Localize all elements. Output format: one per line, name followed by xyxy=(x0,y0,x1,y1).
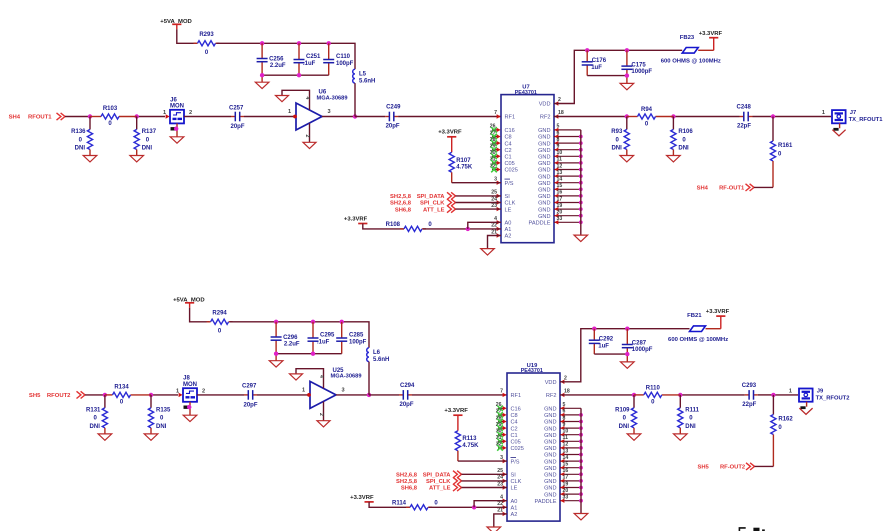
capacitor C295 .1uF xyxy=(308,322,336,354)
svg-text:R108: R108 xyxy=(386,222,401,228)
junction xyxy=(187,405,191,409)
svg-text:GND: GND xyxy=(544,446,556,452)
svg-text:SPI_DATA: SPI_DATA xyxy=(423,473,452,479)
pin GND (19) xyxy=(544,481,581,491)
svg-text:17: 17 xyxy=(557,196,563,202)
capacitor C256 2.2uF xyxy=(257,43,286,75)
junction xyxy=(632,393,636,397)
junction xyxy=(579,187,583,191)
wire xyxy=(462,480,508,482)
svg-text:C296: C296 xyxy=(283,335,298,341)
junction xyxy=(466,227,470,231)
wire amp pin4 to ground xyxy=(282,90,310,110)
junction xyxy=(149,393,153,397)
pin GND (19) xyxy=(538,203,581,213)
op-amp U25 MGA-30689 xyxy=(302,368,361,409)
svg-text:J8: J8 xyxy=(183,376,190,382)
svg-text:FB21: FB21 xyxy=(687,313,702,319)
svg-text:R103: R103 xyxy=(103,106,118,112)
svg-text:C251: C251 xyxy=(306,54,321,60)
svg-text:7: 7 xyxy=(494,110,497,116)
svg-text:20pF: 20pF xyxy=(400,402,414,408)
svg-text:DNI: DNI xyxy=(90,424,101,430)
port SH6,8 ATT_LE xyxy=(395,206,456,214)
svg-text:SH6,8: SH6,8 xyxy=(395,207,412,213)
wire connector ground xyxy=(800,402,806,409)
junction xyxy=(671,114,675,118)
svg-text:SH4: SH4 xyxy=(697,186,709,192)
wire amp pin4 to ground xyxy=(296,369,324,389)
pin C8 (27) no-connect xyxy=(496,409,518,419)
pin GND (17) xyxy=(538,196,581,206)
pin GND (8) xyxy=(544,415,581,425)
svg-text:18: 18 xyxy=(558,110,564,116)
svg-text:R162: R162 xyxy=(778,417,793,423)
junction xyxy=(297,41,301,45)
junction xyxy=(771,114,775,118)
ground xyxy=(574,235,588,241)
svg-text:+3.3VRF: +3.3VRF xyxy=(344,216,368,222)
svg-text:C176: C176 xyxy=(592,58,607,64)
pin PADDLE (33) xyxy=(535,495,581,505)
svg-text:33: 33 xyxy=(563,495,569,501)
power +5VA_MOD xyxy=(160,19,191,29)
svg-text:5: 5 xyxy=(557,124,560,130)
svg-text:C1: C1 xyxy=(505,155,512,161)
svg-text:2.2uF: 2.2uF xyxy=(270,63,286,69)
junction xyxy=(260,73,264,77)
svg-text:C4: C4 xyxy=(511,420,518,426)
svg-text:RF-OUT1: RF-OUT1 xyxy=(719,186,745,192)
svg-text:ATT_LE: ATT_LE xyxy=(423,207,445,213)
pin C2 (29) no-connect xyxy=(496,422,518,432)
capacitor C249 20pF xyxy=(385,105,401,130)
junction xyxy=(340,320,344,324)
port SH2,6,8 SPI_CLK xyxy=(390,199,455,207)
connector J6 MON xyxy=(163,97,192,123)
svg-text:GND: GND xyxy=(538,181,550,187)
wire to A1 xyxy=(429,506,507,508)
title block corner mark xyxy=(739,528,764,531)
ground xyxy=(481,249,495,255)
junction xyxy=(579,141,583,145)
connector J8 MON xyxy=(176,376,205,402)
junction xyxy=(625,48,629,52)
svg-text:C249: C249 xyxy=(386,105,401,111)
pin C025 (32) no-connect xyxy=(496,442,524,452)
resistor R109 (DNI) xyxy=(615,395,641,440)
svg-text:R294: R294 xyxy=(212,310,227,316)
resistor R114 0 xyxy=(369,500,438,510)
svg-text:11: 11 xyxy=(557,157,563,163)
pin C4 (28) no-connect xyxy=(490,137,512,147)
pin GND (16) xyxy=(538,190,581,200)
capacitor C257 20pF xyxy=(229,105,245,130)
wire xyxy=(184,116,231,118)
svg-text:12: 12 xyxy=(563,442,569,448)
pin A0 (4) xyxy=(494,216,511,226)
port SH2,5,8 SPI_CLK xyxy=(396,477,461,485)
pin GND (14) xyxy=(538,177,581,187)
wire port to resistor xyxy=(755,465,774,467)
svg-text:C16: C16 xyxy=(511,407,521,413)
svg-text:+3.3VRF: +3.3VRF xyxy=(350,495,374,501)
svg-text:J7: J7 xyxy=(850,110,856,116)
svg-text:RFOUT1: RFOUT1 xyxy=(28,115,52,121)
wire cap bank bus xyxy=(262,75,329,82)
svg-text:DNI: DNI xyxy=(678,145,689,151)
svg-text:1uF: 1uF xyxy=(598,343,609,349)
power +3.3VRF xyxy=(438,130,462,137)
svg-text:DNI: DNI xyxy=(75,145,86,151)
wire +5VA_MOD to rail xyxy=(190,308,210,322)
svg-text:+3.3VRF: +3.3VRF xyxy=(438,130,462,136)
power +3.3VRF xyxy=(350,495,374,502)
svg-text:1: 1 xyxy=(302,387,305,393)
pin A2 (21) xyxy=(497,508,517,518)
svg-text:20: 20 xyxy=(563,488,569,494)
svg-text:19: 19 xyxy=(557,203,563,209)
svg-text:MGA-30689: MGA-30689 xyxy=(317,95,348,101)
junction xyxy=(174,127,178,131)
resistor R161 0 xyxy=(770,117,793,188)
svg-text:C05: C05 xyxy=(511,440,521,446)
svg-text:R134: R134 xyxy=(114,384,129,390)
svg-text:LE: LE xyxy=(505,207,512,213)
svg-text:GND: GND xyxy=(538,128,550,134)
junction xyxy=(625,73,629,77)
svg-text:RF2: RF2 xyxy=(540,115,551,121)
svg-text:C4: C4 xyxy=(505,141,512,147)
svg-text:22: 22 xyxy=(491,223,497,229)
svg-text:R161: R161 xyxy=(778,143,793,149)
ground xyxy=(0,0,1,1)
svg-text:17: 17 xyxy=(563,475,569,481)
wire xyxy=(456,195,502,197)
svg-text:600 OHMS @ 100MHz: 600 OHMS @ 100MHz xyxy=(668,337,728,343)
pin GND (9) xyxy=(538,144,581,154)
capacitor C297 20pF xyxy=(242,384,258,409)
resistor R135 (DNI) xyxy=(144,395,171,440)
svg-text:10: 10 xyxy=(563,429,569,435)
svg-text:5: 5 xyxy=(563,402,566,408)
pin GND (10) xyxy=(544,429,581,439)
svg-text:R94: R94 xyxy=(641,107,653,113)
svg-text:J6: J6 xyxy=(170,97,177,103)
svg-text:C295: C295 xyxy=(320,332,335,338)
junction xyxy=(472,505,476,509)
ground xyxy=(0,0,1,1)
wire to IC RF1 xyxy=(412,394,507,396)
svg-text:SH2,5,8: SH2,5,8 xyxy=(390,194,412,200)
junction xyxy=(579,433,583,437)
pin C16 (26) no-connect xyxy=(490,124,515,134)
ground xyxy=(276,96,289,102)
wire amp pin2 to ground xyxy=(318,402,324,421)
svg-text:DNI: DNI xyxy=(611,145,622,151)
svg-text:4: 4 xyxy=(318,375,324,378)
wire GND bus xyxy=(580,408,582,513)
port SH4 RF-OUT1 xyxy=(697,184,754,192)
resistor R293 0 xyxy=(194,32,220,56)
svg-text:16: 16 xyxy=(563,468,569,474)
svg-text:C285: C285 xyxy=(349,332,364,338)
svg-text:L5: L5 xyxy=(359,72,367,78)
resistor R113 4.75K xyxy=(455,415,479,461)
pin GND (12) xyxy=(538,163,581,173)
svg-text:GND: GND xyxy=(544,433,556,439)
svg-text:20pF: 20pF xyxy=(231,124,245,130)
svg-text:SPI_CLK: SPI_CLK xyxy=(420,201,445,207)
capacitor C287 1000pF xyxy=(622,329,653,354)
capacitor C176 1uF xyxy=(582,50,607,75)
svg-text:C297: C297 xyxy=(242,384,257,390)
wire xyxy=(753,116,832,118)
junction xyxy=(579,420,583,424)
junction xyxy=(579,486,583,490)
pin GND (15) xyxy=(544,462,581,472)
svg-text:C287: C287 xyxy=(632,341,647,347)
pin P/S (3) xyxy=(494,177,514,187)
ground xyxy=(317,421,330,427)
ground xyxy=(832,130,845,136)
pin GND (11) xyxy=(544,435,581,445)
resistor R111 (DNI) xyxy=(674,395,700,440)
wire amp output xyxy=(322,116,355,118)
svg-text:GND: GND xyxy=(538,155,550,161)
ferrite bead FB23 600 OHMS @ 100MHz xyxy=(661,35,721,65)
svg-text:CLK: CLK xyxy=(511,479,522,485)
inductor L5 5.6nH xyxy=(353,69,376,84)
svg-text:R293: R293 xyxy=(199,32,214,38)
junction xyxy=(274,352,278,356)
wire to A0 xyxy=(468,222,501,229)
resistor R137 (DNI) xyxy=(130,117,157,162)
svg-text:C05: C05 xyxy=(505,161,515,167)
pin GND (12) xyxy=(544,442,581,452)
ground xyxy=(574,514,588,520)
capacitor C285 100pF xyxy=(336,322,366,354)
junction xyxy=(625,327,629,331)
capacitor C248 22pF xyxy=(737,105,753,130)
svg-text:22pF: 22pF xyxy=(737,124,751,130)
junction xyxy=(367,393,371,397)
power +5VA_MOD xyxy=(173,298,204,308)
svg-text:+3.3VRF: +3.3VRF xyxy=(444,408,468,414)
wire to A1 xyxy=(423,228,501,230)
svg-text:6: 6 xyxy=(563,409,566,415)
svg-text:+3.3VRF: +3.3VRF xyxy=(699,31,723,37)
wire xyxy=(462,473,508,475)
port SH5 RF-OUT2 xyxy=(698,463,755,471)
svg-text:R93: R93 xyxy=(611,129,623,135)
capacitor C294 20pF xyxy=(399,383,415,408)
svg-text:33: 33 xyxy=(557,216,563,222)
port SH4 RFOUT1 xyxy=(9,113,65,121)
svg-text:PADDLE: PADDLE xyxy=(535,499,557,505)
pin GND (10) xyxy=(538,150,581,160)
svg-text:R106: R106 xyxy=(678,129,693,135)
svg-text:SH2,5,8: SH2,5,8 xyxy=(396,479,418,485)
svg-text:SH2,6,8: SH2,6,8 xyxy=(396,473,418,479)
wire amp pin2 to ground xyxy=(304,123,310,142)
svg-text:2.2uF: 2.2uF xyxy=(284,342,300,348)
svg-text:4.75K: 4.75K xyxy=(456,165,473,171)
svg-text:20pF: 20pF xyxy=(244,402,258,408)
op-amp U6 MGA-30689 xyxy=(288,90,347,131)
svg-text:C025: C025 xyxy=(511,446,524,452)
svg-text:R136: R136 xyxy=(71,129,86,135)
junction xyxy=(579,459,583,463)
junction xyxy=(311,352,315,356)
svg-text:GND: GND xyxy=(538,141,550,147)
svg-text:GND: GND xyxy=(538,188,550,194)
svg-text:9: 9 xyxy=(563,422,566,428)
resistor R94 0 xyxy=(627,107,674,127)
svg-text:DNI: DNI xyxy=(142,145,153,151)
pin GND (5) xyxy=(538,124,581,134)
svg-text:RF1: RF1 xyxy=(505,115,516,121)
pin A0 (4) xyxy=(500,495,517,505)
svg-text:R109: R109 xyxy=(615,408,630,414)
svg-text:GND: GND xyxy=(544,453,556,459)
junction xyxy=(771,393,775,397)
wire amp output xyxy=(336,394,369,396)
svg-text:C8: C8 xyxy=(511,413,518,419)
junction xyxy=(311,320,315,324)
svg-text:8: 8 xyxy=(563,415,566,421)
svg-text:+3.3VRF: +3.3VRF xyxy=(706,309,730,315)
svg-text:R110: R110 xyxy=(646,385,661,391)
svg-text:C175: C175 xyxy=(631,62,646,68)
svg-text:5.6nH: 5.6nH xyxy=(373,357,389,363)
svg-text:GND: GND xyxy=(544,420,556,426)
svg-text:R131: R131 xyxy=(86,408,101,414)
svg-text:GND: GND xyxy=(544,486,556,492)
svg-text:SI: SI xyxy=(511,473,517,479)
wire VDD to rail xyxy=(560,329,690,382)
svg-text:2: 2 xyxy=(189,110,192,116)
wire to P/S xyxy=(458,460,507,462)
pin GND (13) xyxy=(544,448,581,458)
pin C05 (31) no-connect xyxy=(496,435,521,445)
wire to A0 xyxy=(474,501,507,508)
junction xyxy=(579,154,583,158)
svg-text:GND: GND xyxy=(544,407,556,413)
pin RF1 (7) xyxy=(500,389,521,400)
svg-text:GND: GND xyxy=(544,440,556,446)
junction xyxy=(579,161,583,165)
svg-text:1: 1 xyxy=(822,110,825,116)
svg-text:RFOUT2: RFOUT2 xyxy=(47,393,71,399)
pin GND (5) xyxy=(544,402,581,412)
junction xyxy=(579,479,583,483)
pin A1 (22) xyxy=(497,501,517,511)
pin LE (23) xyxy=(497,481,517,491)
pin C1 (30) no-connect xyxy=(490,150,512,160)
svg-text:GND: GND xyxy=(544,459,556,465)
svg-text:14: 14 xyxy=(557,177,563,183)
svg-text:GND: GND xyxy=(538,135,550,141)
pin RF1 (7) xyxy=(494,110,515,121)
junction xyxy=(579,194,583,198)
svg-text:22pF: 22pF xyxy=(742,402,756,408)
svg-text:A2: A2 xyxy=(511,512,518,518)
svg-text:.1uF: .1uF xyxy=(317,339,330,345)
svg-text:R137: R137 xyxy=(142,129,157,135)
svg-text:A2: A2 xyxy=(505,234,512,240)
svg-text:A1: A1 xyxy=(505,227,512,233)
svg-text:16: 16 xyxy=(557,190,563,196)
svg-text:12: 12 xyxy=(557,163,563,169)
svg-text:DNI: DNI xyxy=(156,424,167,430)
resistor R136 (DNI) xyxy=(71,117,97,162)
svg-text:C16: C16 xyxy=(505,128,515,134)
svg-text:GND: GND xyxy=(538,161,550,167)
svg-text:MGA-30689: MGA-30689 xyxy=(331,374,362,380)
svg-text:.1uF: .1uF xyxy=(303,61,316,67)
pin C2 (29) no-connect xyxy=(490,144,512,154)
svg-text:1000pF: 1000pF xyxy=(631,69,652,75)
pin C025 (32) no-connect xyxy=(490,163,518,173)
junction xyxy=(678,393,682,397)
junction xyxy=(579,439,583,443)
junction xyxy=(135,114,139,118)
wire decoupling bus xyxy=(594,354,627,362)
pin GND (20) xyxy=(538,210,581,220)
ground xyxy=(170,137,184,143)
pin C1 (30) no-connect xyxy=(496,429,518,439)
svg-text:GND: GND xyxy=(544,473,556,479)
port SH5 RFOUT2 xyxy=(29,391,85,399)
IC U19 PE43701 xyxy=(507,363,560,521)
junction xyxy=(585,48,589,52)
port SH6,8 ATT_LE xyxy=(401,484,462,492)
svg-text:11: 11 xyxy=(563,435,569,441)
svg-text:SH5: SH5 xyxy=(698,465,710,471)
svg-text:21: 21 xyxy=(497,508,503,514)
svg-text:MON: MON xyxy=(170,104,184,110)
resistor R107 4.75K xyxy=(449,137,473,183)
junction xyxy=(260,41,264,45)
svg-text:14: 14 xyxy=(563,455,569,461)
wire RF2 net xyxy=(560,394,745,396)
junction xyxy=(579,426,583,430)
resistor R110 0 xyxy=(634,385,680,405)
svg-text:C2: C2 xyxy=(511,426,518,432)
ferrite bead FB21 600 OHMS @ 100MHz xyxy=(668,313,728,343)
connector J9 TX_RFOUT2 xyxy=(789,388,850,401)
port SH2,5,8 SPI_DATA xyxy=(390,192,455,200)
pin CLK (24) xyxy=(491,196,515,206)
svg-text:P/S: P/S xyxy=(505,181,514,187)
svg-text:3: 3 xyxy=(328,109,331,115)
wire xyxy=(197,394,244,396)
pin P/S (3) xyxy=(500,455,520,465)
svg-text:25: 25 xyxy=(491,190,497,196)
junction xyxy=(579,148,583,152)
ground xyxy=(255,82,269,88)
junction xyxy=(103,393,107,397)
svg-text:9: 9 xyxy=(557,144,560,150)
ground xyxy=(269,361,283,367)
svg-text:MON: MON xyxy=(183,382,197,388)
svg-text:TX_RFOUT1: TX_RFOUT1 xyxy=(849,117,884,123)
svg-text:CLK: CLK xyxy=(505,201,516,207)
pin A2 (21) xyxy=(491,229,511,239)
svg-text:GND: GND xyxy=(538,148,550,154)
svg-text:6: 6 xyxy=(557,130,560,136)
